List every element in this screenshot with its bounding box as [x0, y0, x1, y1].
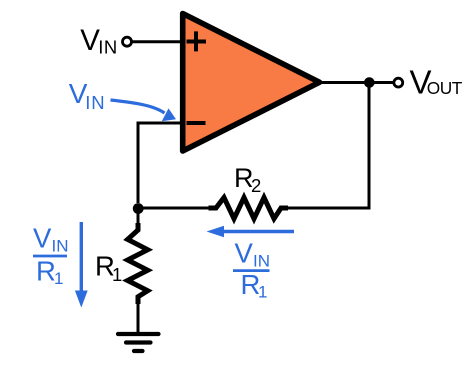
- svg-text:1: 1: [112, 264, 122, 285]
- blue curved arrow to inverting input: [111, 100, 177, 121]
- wire: inverting node to R2: [138, 207, 216, 210]
- svg-text:2: 2: [251, 175, 261, 196]
- svg-text:1: 1: [54, 269, 63, 288]
- op-amp U1: [183, 14, 320, 152]
- svg-text:R: R: [36, 256, 56, 287]
- svg-text:IN: IN: [253, 252, 270, 271]
- svg-text:IN: IN: [85, 92, 105, 113]
- wire: op-amp output: [318, 81, 394, 84]
- wire: node down to R1: [137, 208, 140, 227]
- blue down arrow (current direction through R1): [75, 222, 88, 308]
- wire: inverting input to feedback node: [138, 123, 181, 203]
- op-amp + input marking: [187, 31, 207, 51]
- input terminal: [123, 37, 132, 46]
- label V_IN (input): [80, 24, 118, 58]
- wire: R1 to ground: [137, 300, 140, 334]
- op-amp − input marking: [187, 121, 206, 125]
- label R1: [95, 251, 122, 286]
- svg-text:IN: IN: [52, 237, 69, 256]
- svg-text:V: V: [33, 222, 52, 253]
- resistor R2: [209, 198, 289, 219]
- svg-text:V: V: [235, 238, 254, 269]
- wire: feedback from output node down and left to R2: [281, 84, 369, 208]
- output terminal: [394, 78, 403, 87]
- blue current label V_IN/R_1 (right): [233, 238, 270, 302]
- blue annotation V_IN (at inverting input): [69, 78, 106, 113]
- svg-text:1: 1: [258, 283, 267, 302]
- ground: [118, 334, 159, 351]
- svg-text:OUT: OUT: [427, 78, 463, 98]
- resistor R1: [128, 223, 148, 304]
- svg-text:IN: IN: [98, 36, 118, 57]
- label R2: [234, 163, 261, 196]
- node: inverting input junction: [133, 203, 144, 214]
- blue current label V_IN/R_1 (left): [33, 222, 69, 288]
- node: output junction: [364, 77, 375, 88]
- blue left arrow (feedback current direction): [207, 226, 295, 237]
- wire: input terminal to non-inverting input: [132, 40, 183, 43]
- label V_OUT: [410, 64, 463, 101]
